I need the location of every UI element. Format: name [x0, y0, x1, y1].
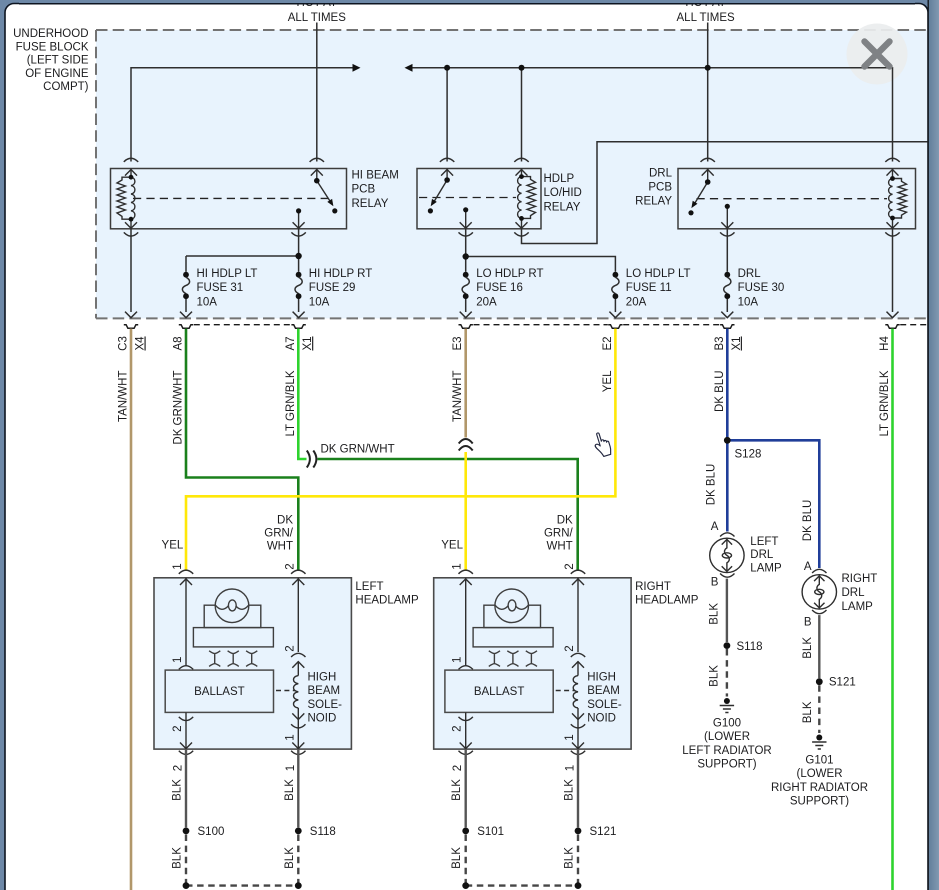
svg-text:10A: 10A: [309, 296, 330, 308]
svg-text:S121: S121: [829, 677, 856, 689]
svg-text:NOID: NOID: [308, 713, 337, 725]
svg-text:S121: S121: [590, 826, 617, 838]
svg-text:G101: G101: [805, 754, 833, 766]
svg-text:B3: B3: [714, 336, 726, 350]
svg-text:SUPPORT): SUPPORT): [790, 796, 849, 808]
svg-text:RELAY: RELAY: [635, 195, 672, 207]
svg-text:TAN/WHT: TAN/WHT: [452, 371, 464, 423]
svg-text:DK: DK: [557, 515, 573, 527]
svg-text:2: 2: [284, 645, 296, 651]
svg-text:ALL TIMES: ALL TIMES: [677, 12, 735, 24]
svg-text:BLK: BLK: [708, 665, 720, 687]
svg-text:(LOWER: (LOWER: [704, 731, 750, 743]
svg-text:A: A: [804, 561, 812, 573]
svg-text:10A: 10A: [197, 296, 218, 308]
svg-text:A: A: [711, 521, 719, 533]
svg-text:LEFT RADIATOR: LEFT RADIATOR: [682, 745, 771, 757]
svg-text:S118: S118: [310, 826, 336, 838]
svg-text:10A: 10A: [738, 296, 759, 308]
svg-text:1: 1: [172, 657, 184, 663]
svg-text:G100: G100: [713, 717, 741, 729]
svg-text:C3: C3: [118, 336, 130, 351]
svg-text:RELAY: RELAY: [544, 201, 581, 213]
svg-text:BLK: BLK: [284, 779, 296, 801]
svg-text:DK GRN/WHT: DK GRN/WHT: [173, 371, 185, 445]
svg-text:DRL: DRL: [842, 587, 866, 599]
svg-text:FUSE 11: FUSE 11: [626, 282, 672, 294]
svg-text:RIGHT: RIGHT: [842, 573, 878, 585]
svg-text:RIGHT RADIATOR: RIGHT RADIATOR: [771, 782, 868, 794]
svg-text:H4: H4: [879, 336, 891, 351]
svg-text:DK BLU: DK BLU: [706, 464, 718, 506]
svg-text:DK GRN/WHT: DK GRN/WHT: [321, 444, 395, 456]
svg-text:1: 1: [172, 563, 184, 569]
svg-text:2: 2: [172, 725, 184, 731]
svg-text:HIGH: HIGH: [308, 672, 337, 684]
svg-text:GRN/: GRN/: [544, 528, 574, 540]
svg-text:BLK: BLK: [802, 701, 814, 723]
svg-text:LT GRN/BLK: LT GRN/BLK: [285, 370, 297, 436]
svg-text:FUSE BLOCK: FUSE BLOCK: [16, 41, 89, 53]
svg-text:(LEFT SIDE: (LEFT SIDE: [27, 55, 89, 67]
svg-text:HDLP: HDLP: [544, 173, 575, 185]
svg-text:20A: 20A: [476, 296, 497, 308]
svg-text:1: 1: [284, 734, 296, 740]
svg-text:X1: X1: [302, 336, 314, 350]
svg-text:HEADLAMP: HEADLAMP: [355, 594, 419, 606]
svg-text:2: 2: [173, 765, 185, 771]
svg-text:COMPT): COMPT): [43, 81, 89, 93]
svg-text:S100: S100: [198, 826, 225, 838]
svg-text:HI HDLP RT: HI HDLP RT: [309, 268, 372, 280]
svg-text:HI HDLP LT: HI HDLP LT: [197, 268, 258, 280]
svg-text:BLK: BLK: [708, 603, 720, 625]
svg-text:SUPPORT): SUPPORT): [697, 759, 756, 771]
svg-text:B: B: [711, 577, 719, 589]
svg-text:DK BLU: DK BLU: [802, 500, 814, 542]
svg-text:LT GRN/BLK: LT GRN/BLK: [879, 370, 891, 436]
svg-text:DRL: DRL: [649, 167, 673, 179]
svg-text:SOLE-: SOLE-: [308, 699, 343, 711]
svg-text:BLK: BLK: [802, 637, 814, 659]
svg-text:S128: S128: [735, 449, 762, 461]
svg-text:LEFT: LEFT: [355, 581, 383, 593]
svg-text:YEL: YEL: [162, 540, 184, 552]
svg-text:TAN/WHT: TAN/WHT: [118, 371, 130, 423]
svg-text:DK: DK: [277, 515, 293, 527]
svg-text:E3: E3: [452, 336, 464, 350]
svg-text:1: 1: [285, 765, 297, 771]
svg-text:20A: 20A: [626, 296, 647, 308]
svg-text:RIGHT: RIGHT: [635, 581, 671, 593]
svg-text:FUSE 30: FUSE 30: [738, 282, 785, 294]
svg-text:BLK: BLK: [172, 779, 184, 801]
svg-text:LAMP: LAMP: [750, 562, 782, 574]
svg-text:ALL TIMES: ALL TIMES: [288, 12, 346, 24]
svg-text:LO HDLP RT: LO HDLP RT: [476, 268, 543, 280]
svg-text:DRL: DRL: [738, 268, 762, 280]
svg-text:WHT: WHT: [267, 541, 293, 553]
svg-text:LO/HID: LO/HID: [544, 187, 582, 199]
svg-text:X1: X1: [731, 336, 743, 350]
svg-text:A8: A8: [173, 336, 185, 350]
svg-text:BLK: BLK: [284, 847, 296, 869]
svg-text:FUSE 16: FUSE 16: [476, 282, 523, 294]
svg-text:BEAM: BEAM: [308, 685, 341, 697]
svg-text:WHT: WHT: [547, 541, 573, 553]
svg-text:UNDERHOOD: UNDERHOOD: [13, 28, 88, 40]
svg-text:RELAY: RELAY: [352, 198, 389, 210]
svg-text:S101: S101: [477, 826, 504, 838]
svg-text:E2: E2: [602, 336, 614, 350]
svg-text:FUSE 29: FUSE 29: [309, 282, 356, 294]
svg-text:PCB: PCB: [352, 184, 376, 196]
svg-text:B: B: [804, 617, 812, 629]
svg-text:LO HDLP LT: LO HDLP LT: [626, 268, 691, 280]
svg-text:X4: X4: [135, 336, 147, 351]
svg-text:YEL: YEL: [602, 370, 614, 392]
svg-text:GRN/: GRN/: [264, 528, 294, 540]
svg-text:S118: S118: [737, 641, 763, 653]
svg-text:HEADLAMP: HEADLAMP: [635, 594, 699, 606]
svg-text:DRL: DRL: [750, 549, 774, 561]
svg-text:LAMP: LAMP: [842, 601, 874, 613]
svg-text:(LOWER: (LOWER: [797, 768, 843, 780]
svg-text:YEL: YEL: [441, 540, 463, 552]
svg-text:DK BLU: DK BLU: [714, 371, 726, 413]
svg-text:A7: A7: [285, 336, 297, 350]
svg-text:BLK: BLK: [172, 847, 184, 869]
svg-text:BALLAST: BALLAST: [194, 686, 245, 698]
svg-text:PCB: PCB: [648, 181, 672, 193]
svg-text:HI BEAM: HI BEAM: [352, 169, 399, 181]
svg-text:LEFT: LEFT: [750, 536, 778, 548]
svg-text:2: 2: [284, 563, 296, 569]
svg-text:FUSE 31: FUSE 31: [197, 282, 244, 294]
svg-text:OF ENGINE: OF ENGINE: [25, 68, 89, 80]
